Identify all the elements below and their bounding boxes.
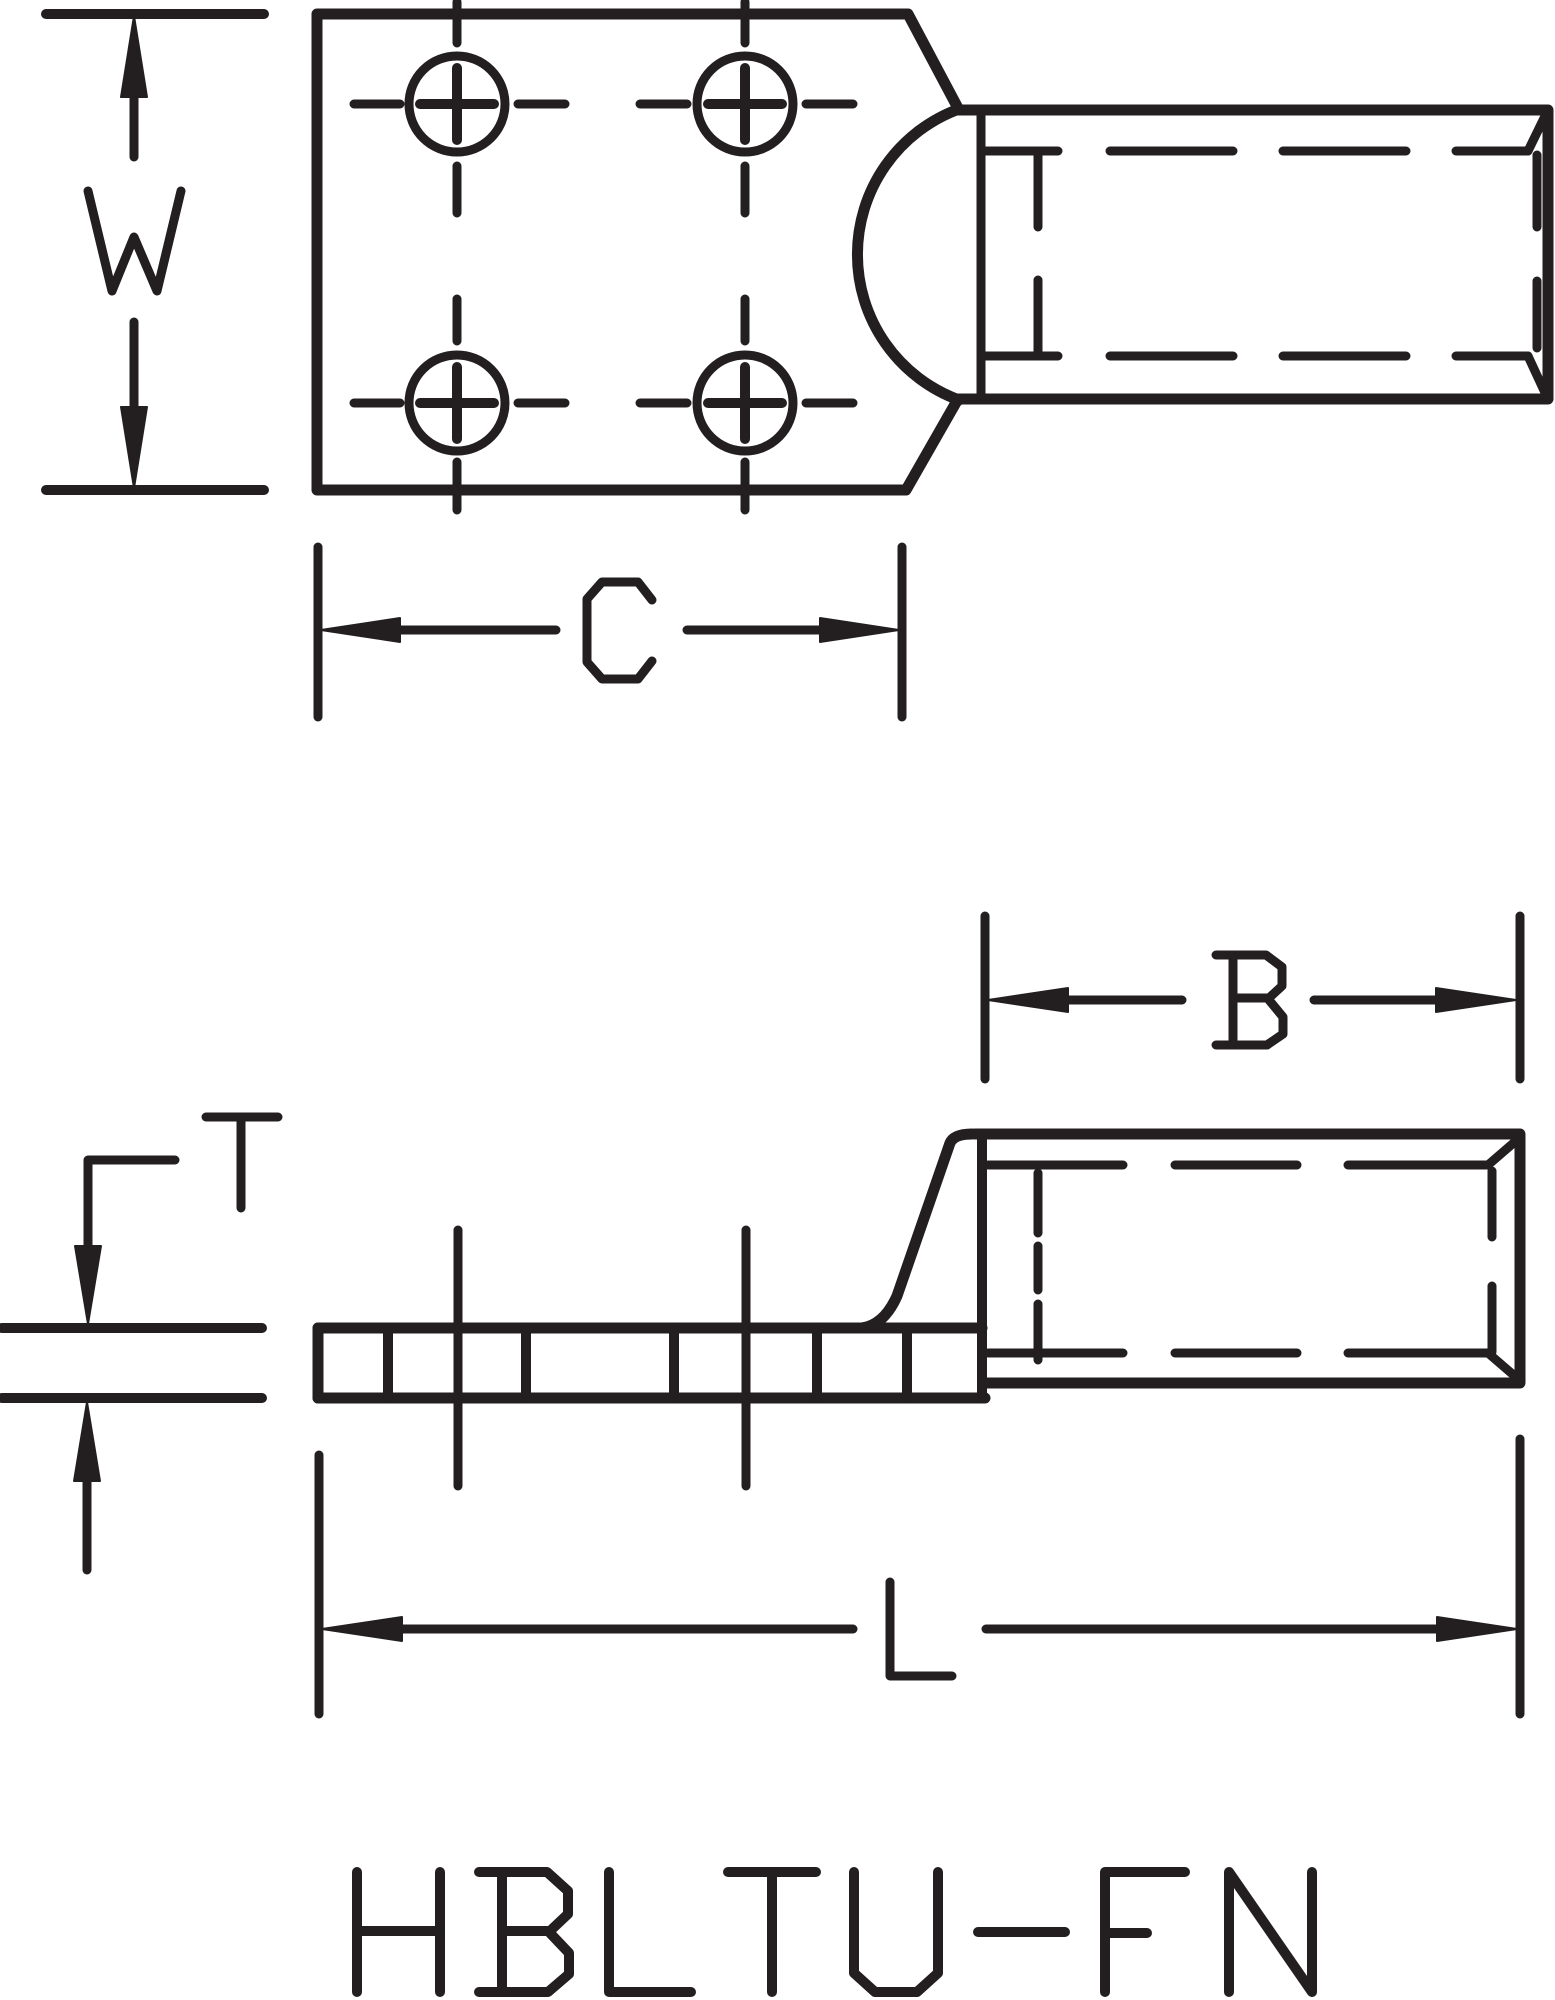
- centerline dashes, left hole column: [453, 2, 462, 510]
- dimension label L: [890, 1582, 952, 1676]
- tongue top surface line (side view): [318, 1323, 982, 1334]
- dimension label C: [587, 582, 652, 679]
- dimension L left extension line: [315, 1455, 324, 1714]
- bolt hole H4 center cross: [708, 367, 782, 439]
- barrel end bottom bevel diagonal (side view): [1488, 1353, 1517, 1378]
- neck transition curve (side view): [862, 1134, 972, 1328]
- barrel mouth arc (top view): [857, 109, 959, 400]
- dimension L right extension line: [1516, 1439, 1525, 1714]
- title letter L: [609, 1872, 691, 1992]
- dimension C left extension line: [314, 547, 323, 717]
- barrel end bottom bevel diagonal (top view): [1528, 356, 1547, 397]
- title letter F: [1105, 1872, 1185, 1992]
- dimension label W: [88, 191, 181, 291]
- dimension B right arrow: [1436, 988, 1516, 1012]
- dimension B left extension line: [981, 916, 990, 1079]
- centerline dashes, top hole row: [354, 100, 853, 109]
- serration divider 4 (side view): [812, 1328, 822, 1398]
- bolt hole H2 circle (top-right): [697, 56, 793, 152]
- pad outline (tongue pad, top view): [317, 14, 959, 490]
- serration divider 2 (side view): [521, 1328, 531, 1398]
- title hyphen: [978, 1927, 1065, 1937]
- dimension B right extension line: [1516, 916, 1525, 1079]
- bore silhouette dashed bottom line (top view): [985, 352, 1528, 361]
- bore silhouette dashed top line (top view): [985, 147, 1528, 156]
- bolt hole H1 center cross: [420, 68, 494, 140]
- title letter U: [854, 1872, 938, 1992]
- barrel end top bevel diagonal (side view): [1488, 1140, 1517, 1165]
- dimension label B: [1216, 955, 1283, 1045]
- dimension C left arrow: [321, 618, 400, 642]
- title letter H: [357, 1872, 440, 1992]
- dimension W bottom extension line: [46, 485, 264, 495]
- barrel outline (side view): [975, 1134, 1520, 1383]
- dimension T top extension line: [2, 1323, 262, 1333]
- title letter B: [479, 1872, 569, 1992]
- centerline dashes, right hole column: [741, 2, 750, 510]
- dimension W top extension line: [46, 9, 264, 19]
- hole centerline left (side view): [454, 1230, 463, 1486]
- barrel end top bevel diagonal (top view): [1528, 112, 1547, 151]
- bore depth dashed vertical (side view): [1034, 1173, 1043, 1360]
- dimension L right arrow: [1437, 1617, 1517, 1641]
- bore silhouette dashed bottom line (side view): [988, 1349, 1488, 1358]
- dimension B left arrow: [988, 988, 1068, 1012]
- serration divider 1 (side view): [383, 1328, 393, 1398]
- dimension T leader line: [88, 1160, 175, 1246]
- title letter T: [728, 1872, 816, 1992]
- tongue bottom surface line (side view): [318, 1393, 985, 1404]
- tongue left end edge (side view): [313, 1328, 324, 1398]
- serration divider 3 (side view): [669, 1328, 679, 1398]
- barrel left edge line (side view): [977, 1134, 987, 1397]
- bore silhouette dashed top line (side view): [988, 1161, 1488, 1170]
- dimension W lower arrow: [121, 407, 147, 488]
- serration divider 5 (side view): [902, 1328, 912, 1398]
- bolt hole H3 circle (bottom-left): [409, 355, 505, 451]
- dimension T up arrow: [74, 1402, 100, 1481]
- barrel end inner vertical dashes (side view): [1488, 1171, 1497, 1352]
- dimension C right extension line: [898, 547, 907, 717]
- bolt hole H3 center cross: [420, 367, 494, 439]
- bolt hole H2 center cross: [708, 68, 782, 140]
- title letter N: [1229, 1872, 1312, 1992]
- dimension W upper arrow: [121, 16, 147, 97]
- bolt hole H1 circle (top-left): [409, 56, 505, 152]
- dimension T down arrow: [75, 1246, 101, 1324]
- dimension C right arrow: [820, 618, 899, 642]
- hole centerline right (side view): [742, 1230, 751, 1486]
- bore depth dashed vertical (top view): [1034, 153, 1043, 356]
- barrel left edge line (top view): [977, 110, 986, 399]
- barrel outline (top view): [958, 110, 1548, 399]
- centerline dashes, bottom hole row: [354, 399, 853, 408]
- dimension T bottom extension line: [2, 1393, 262, 1403]
- bolt hole H4 circle (bottom-right): [697, 355, 793, 451]
- dimension T label: [206, 1117, 278, 1208]
- dimension L left arrow: [322, 1617, 402, 1641]
- barrel end inner vertical dashes (top view): [1533, 155, 1542, 348]
